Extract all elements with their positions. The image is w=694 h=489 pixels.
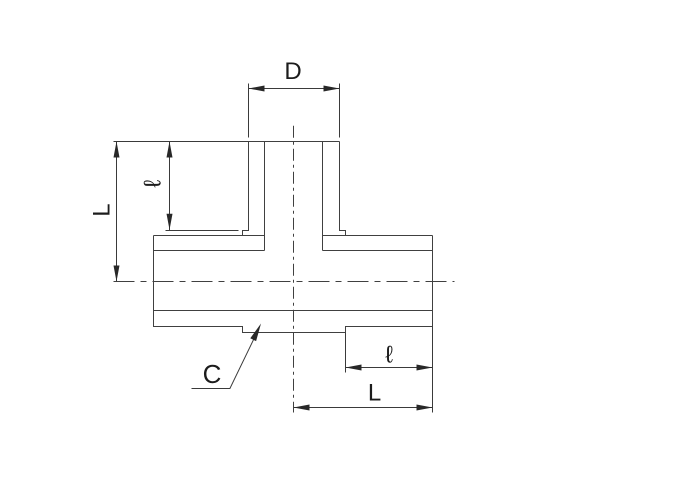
socket top line	[154, 250, 433, 252]
arrowhead L left bottom	[114, 266, 120, 282]
centerline horizontal	[114, 281, 455, 283]
svg-text:ℓ: ℓ	[140, 180, 167, 188]
branch bore left	[264, 142, 266, 251]
branch outline left with base step	[243, 142, 249, 236]
arrowhead C leader	[250, 324, 261, 342]
dim ell bottom-right extension lines	[346, 327, 433, 413]
branch outline right with base step	[340, 142, 346, 236]
C leader line	[192, 334, 257, 389]
arrowhead L left top	[114, 142, 120, 158]
arrowhead ell left bottom	[167, 214, 173, 230]
svg-text:D: D	[284, 58, 301, 85]
dim D extension lines	[249, 84, 340, 138]
svg-text:L: L	[89, 203, 116, 216]
svg-text:C: C	[203, 359, 222, 389]
svg-text:ℓ: ℓ	[385, 342, 393, 369]
dim L left line	[116, 142, 118, 282]
arrowhead ell bottom-right right	[417, 365, 433, 371]
dim ell left line	[169, 142, 171, 231]
dim D line	[249, 88, 340, 90]
socket bottom line	[154, 310, 433, 312]
arrowhead ell left top	[167, 142, 173, 158]
svg-text:L: L	[368, 380, 381, 407]
dim ell bottom-right line	[346, 367, 433, 369]
arrowhead L bottom left	[294, 405, 310, 411]
arrowhead D right	[324, 86, 340, 92]
branch bore right	[322, 142, 324, 251]
tee body outline	[154, 236, 433, 333]
dim ell left extension line	[166, 230, 239, 232]
arrowhead D left	[249, 86, 265, 92]
branch top edge	[249, 141, 340, 143]
dim L left top extension line	[114, 141, 249, 143]
arrowhead L bottom right	[417, 405, 433, 411]
dim L bottom line	[294, 407, 433, 409]
arrowhead ell bottom-right left	[346, 365, 362, 371]
centerline vertical	[293, 126, 295, 413]
